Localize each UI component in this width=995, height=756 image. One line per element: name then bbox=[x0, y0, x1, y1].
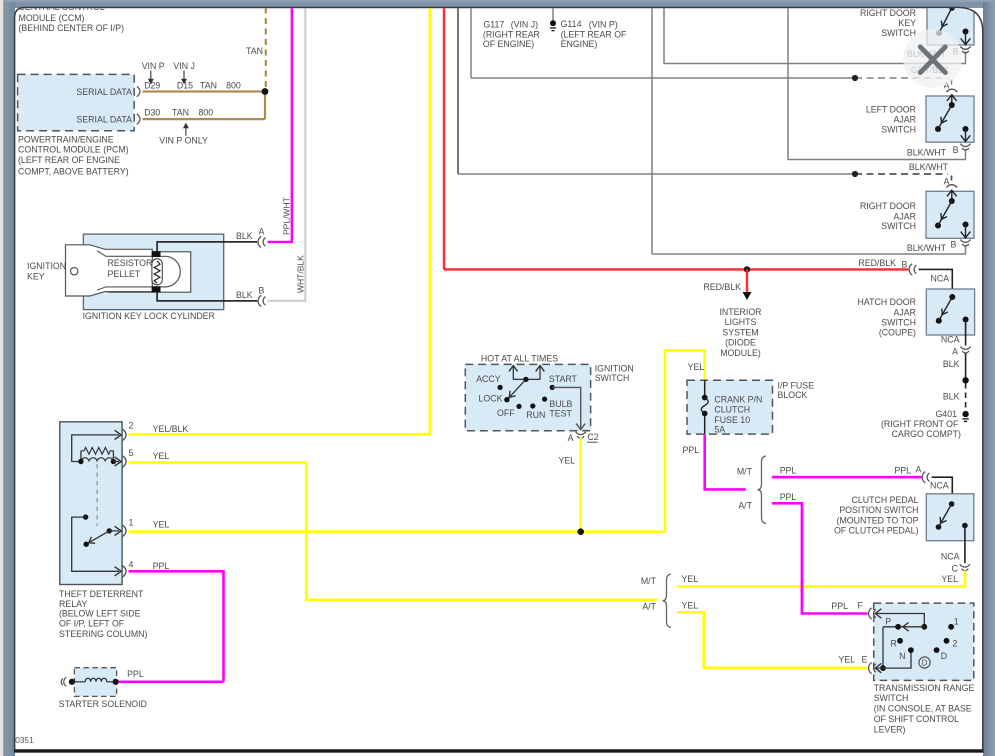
svg-text:YEL: YEL bbox=[682, 600, 699, 610]
svg-text:BLK/WHT: BLK/WHT bbox=[907, 148, 947, 158]
svg-text:YEL: YEL bbox=[153, 451, 170, 461]
svg-text:SERIAL DATA: SERIAL DATA bbox=[76, 114, 132, 124]
svg-text:CLUTCH: CLUTCH bbox=[714, 404, 750, 414]
svg-text:CARGO COMPT): CARGO COMPT) bbox=[892, 429, 961, 439]
svg-text:BLOCK: BLOCK bbox=[778, 390, 808, 400]
svg-text:PPL: PPL bbox=[780, 465, 797, 475]
svg-text:CONTROL MODULE (PCM): CONTROL MODULE (PCM) bbox=[18, 145, 129, 155]
svg-text:M/T: M/T bbox=[737, 467, 753, 477]
svg-text:OF I/P, LEFT OF: OF I/P, LEFT OF bbox=[59, 619, 125, 629]
svg-text:(LEFT REAR OF ENGINE: (LEFT REAR OF ENGINE bbox=[18, 155, 120, 165]
svg-text:G117: G117 bbox=[483, 20, 504, 30]
svg-text:YEL: YEL bbox=[838, 655, 855, 665]
svg-text:SWITCH: SWITCH bbox=[595, 373, 630, 383]
svg-text:PPL/WHT: PPL/WHT bbox=[282, 197, 292, 235]
svg-text:NCA: NCA bbox=[930, 481, 949, 491]
svg-text:D15: D15 bbox=[177, 80, 193, 90]
svg-text:PPL: PPL bbox=[894, 465, 911, 475]
svg-text:BLK/WHT: BLK/WHT bbox=[907, 243, 947, 253]
svg-text:SERIAL DATA: SERIAL DATA bbox=[76, 87, 132, 97]
svg-text:YEL: YEL bbox=[688, 362, 705, 372]
svg-text:IGNITION: IGNITION bbox=[27, 261, 66, 271]
svg-text:D: D bbox=[941, 651, 947, 661]
svg-text:(VIN P): (VIN P) bbox=[589, 20, 618, 30]
svg-text:A: A bbox=[944, 177, 950, 187]
svg-text:TEST: TEST bbox=[549, 409, 572, 419]
svg-text:A: A bbox=[916, 465, 922, 475]
svg-text:A: A bbox=[259, 226, 265, 236]
svg-text:BLK: BLK bbox=[236, 231, 253, 241]
svg-text:RUN: RUN bbox=[526, 410, 545, 420]
svg-text:800: 800 bbox=[226, 80, 241, 90]
svg-text:M/T: M/T bbox=[641, 576, 657, 586]
svg-text:NCA: NCA bbox=[941, 552, 960, 562]
svg-text:STEERING COLUMN): STEERING COLUMN) bbox=[59, 629, 148, 639]
svg-text:WHT/BLK: WHT/BLK bbox=[296, 255, 306, 293]
svg-text:B: B bbox=[902, 260, 908, 270]
svg-text:ENGINE): ENGINE) bbox=[561, 39, 598, 49]
svg-text:MODULE (CCM): MODULE (CCM) bbox=[19, 13, 85, 23]
svg-text:VIN P: VIN P bbox=[142, 61, 165, 71]
svg-text:BLK: BLK bbox=[943, 359, 960, 369]
svg-text:TAN: TAN bbox=[200, 80, 217, 90]
svg-text:AJAR: AJAR bbox=[894, 115, 917, 125]
svg-text:RELAY: RELAY bbox=[59, 599, 87, 609]
svg-text:POSITION SWITCH: POSITION SWITCH bbox=[839, 505, 918, 515]
svg-text:OF SHIFT CONTROL: OF SHIFT CONTROL bbox=[874, 714, 959, 724]
svg-text:R: R bbox=[890, 639, 896, 649]
svg-text:A: A bbox=[568, 433, 574, 443]
svg-text:NCA: NCA bbox=[931, 274, 950, 284]
svg-text:RESISTOR: RESISTOR bbox=[108, 258, 153, 268]
svg-text:0351: 0351 bbox=[15, 736, 34, 745]
svg-text:YEL/BLK: YEL/BLK bbox=[153, 424, 189, 434]
svg-text:AJAR: AJAR bbox=[894, 211, 917, 221]
svg-text:(IN CONSOLE, AT BASE: (IN CONSOLE, AT BASE bbox=[874, 704, 972, 714]
svg-text:TRANSMISSION RANGE: TRANSMISSION RANGE bbox=[874, 683, 975, 693]
svg-text:TAN: TAN bbox=[172, 108, 189, 118]
svg-text:LEVER): LEVER) bbox=[874, 725, 906, 735]
svg-text:CRANK P/N: CRANK P/N bbox=[714, 394, 762, 404]
svg-text:KEY: KEY bbox=[898, 18, 916, 28]
svg-text:THEFT DETERRENT: THEFT DETERRENT bbox=[59, 589, 144, 599]
svg-text:MODULE): MODULE) bbox=[720, 348, 761, 358]
svg-text:YEL: YEL bbox=[682, 574, 699, 584]
svg-text:SYSTEM: SYSTEM bbox=[722, 327, 758, 337]
svg-text:STARTER SOLENOID: STARTER SOLENOID bbox=[59, 699, 147, 709]
svg-text:PPL: PPL bbox=[831, 601, 848, 611]
svg-text:A/T: A/T bbox=[738, 501, 752, 511]
svg-text:BULB: BULB bbox=[549, 399, 572, 409]
svg-text:SWITCH: SWITCH bbox=[874, 693, 909, 703]
svg-text:BLK/WHT: BLK/WHT bbox=[909, 162, 949, 172]
svg-text:C2: C2 bbox=[587, 432, 598, 442]
svg-text:5: 5 bbox=[129, 448, 134, 458]
svg-text:CLUTCH PEDAL: CLUTCH PEDAL bbox=[852, 495, 919, 505]
svg-text:BLK: BLK bbox=[236, 290, 253, 300]
svg-text:(COUPE): (COUPE) bbox=[879, 328, 916, 338]
svg-text:OF CLUTCH PEDAL): OF CLUTCH PEDAL) bbox=[834, 526, 919, 536]
svg-text:AJAR: AJAR bbox=[894, 307, 917, 317]
svg-text:P: P bbox=[885, 616, 891, 626]
svg-text:2: 2 bbox=[129, 420, 134, 430]
svg-text:INTERIOR: INTERIOR bbox=[719, 307, 761, 317]
svg-text:(BEHIND CENTER OF I/P): (BEHIND CENTER OF I/P) bbox=[19, 23, 125, 33]
svg-text:D30: D30 bbox=[144, 108, 160, 118]
svg-text:RIGHT DOOR: RIGHT DOOR bbox=[860, 201, 916, 211]
svg-text:SWITCH: SWITCH bbox=[881, 125, 916, 135]
svg-text:RED/BLK: RED/BLK bbox=[703, 282, 741, 292]
svg-text:B: B bbox=[953, 145, 959, 155]
svg-text:PPL: PPL bbox=[153, 561, 170, 571]
svg-text:N: N bbox=[899, 651, 905, 661]
svg-text:1: 1 bbox=[954, 616, 959, 626]
svg-text:5A: 5A bbox=[714, 425, 725, 435]
svg-text:YEL: YEL bbox=[941, 574, 958, 584]
svg-text:SWITCH: SWITCH bbox=[881, 317, 916, 327]
svg-text:COMPT, ABOVE BATTERY): COMPT, ABOVE BATTERY) bbox=[18, 166, 129, 176]
svg-text:VIN J: VIN J bbox=[173, 61, 195, 71]
svg-text:(DIODE: (DIODE bbox=[725, 338, 756, 348]
svg-text:F: F bbox=[858, 601, 864, 611]
svg-text:RIGHT DOOR: RIGHT DOOR bbox=[860, 8, 916, 18]
svg-text:A/T: A/T bbox=[642, 602, 656, 612]
svg-text:VIN P ONLY: VIN P ONLY bbox=[159, 135, 208, 145]
svg-text:PPL: PPL bbox=[683, 445, 700, 455]
svg-text:(RIGHT REAR: (RIGHT REAR bbox=[483, 29, 540, 39]
svg-text:D29: D29 bbox=[144, 80, 160, 90]
svg-text:LOCK: LOCK bbox=[479, 394, 503, 404]
svg-text:G114: G114 bbox=[561, 19, 582, 29]
svg-text:LIGHTS: LIGHTS bbox=[725, 317, 757, 327]
svg-text:800: 800 bbox=[199, 108, 214, 118]
svg-text:KEY: KEY bbox=[27, 272, 45, 282]
svg-text:PPL: PPL bbox=[780, 492, 797, 502]
svg-text:(BELOW LEFT SIDE: (BELOW LEFT SIDE bbox=[59, 609, 141, 619]
svg-text:NCA: NCA bbox=[941, 334, 960, 344]
svg-text:PPL: PPL bbox=[127, 669, 144, 679]
svg-text:(LEFT REAR OF: (LEFT REAR OF bbox=[561, 29, 627, 39]
svg-text:SWITCH: SWITCH bbox=[881, 221, 916, 231]
svg-text:BLK: BLK bbox=[943, 392, 960, 402]
svg-text:(RIGHT FRONT OF: (RIGHT FRONT OF bbox=[881, 419, 959, 429]
svg-text:4: 4 bbox=[129, 559, 134, 569]
svg-text:D: D bbox=[922, 659, 928, 668]
svg-text:LEFT DOOR: LEFT DOOR bbox=[866, 104, 916, 114]
svg-text:1: 1 bbox=[129, 518, 134, 528]
svg-text:IGNITION KEY LOCK CYLINDER: IGNITION KEY LOCK CYLINDER bbox=[83, 311, 215, 321]
svg-text:C: C bbox=[952, 563, 959, 573]
svg-text:YEL: YEL bbox=[558, 456, 575, 466]
svg-text:A: A bbox=[952, 346, 958, 356]
svg-text:ACCY: ACCY bbox=[476, 374, 501, 384]
svg-text:SWITCH: SWITCH bbox=[881, 28, 916, 38]
svg-text:RED/BLK: RED/BLK bbox=[858, 258, 896, 268]
svg-text:(MOUNTED TO TOP: (MOUNTED TO TOP bbox=[837, 515, 919, 525]
svg-text:E: E bbox=[862, 655, 868, 665]
svg-text:G401: G401 bbox=[935, 409, 957, 419]
svg-text:OF ENGINE): OF ENGINE) bbox=[483, 39, 534, 49]
svg-text:HATCH DOOR: HATCH DOOR bbox=[858, 297, 916, 307]
svg-text:HOT AT ALL TIMES: HOT AT ALL TIMES bbox=[481, 353, 558, 363]
svg-text:IGNITION: IGNITION bbox=[595, 363, 634, 373]
svg-text:START: START bbox=[549, 374, 578, 384]
svg-text:PELLET: PELLET bbox=[108, 269, 141, 279]
svg-text:(VIN J): (VIN J) bbox=[511, 20, 538, 30]
svg-text:2: 2 bbox=[953, 639, 958, 649]
svg-text:YEL: YEL bbox=[153, 520, 170, 530]
svg-text:POWERTRAIN/ENGINE: POWERTRAIN/ENGINE bbox=[18, 135, 114, 145]
svg-text:TAN: TAN bbox=[246, 46, 263, 56]
svg-text:B: B bbox=[259, 285, 265, 295]
svg-text:FUSE 10: FUSE 10 bbox=[714, 415, 750, 425]
svg-text:B: B bbox=[951, 239, 957, 249]
svg-text:OFF: OFF bbox=[497, 408, 515, 418]
